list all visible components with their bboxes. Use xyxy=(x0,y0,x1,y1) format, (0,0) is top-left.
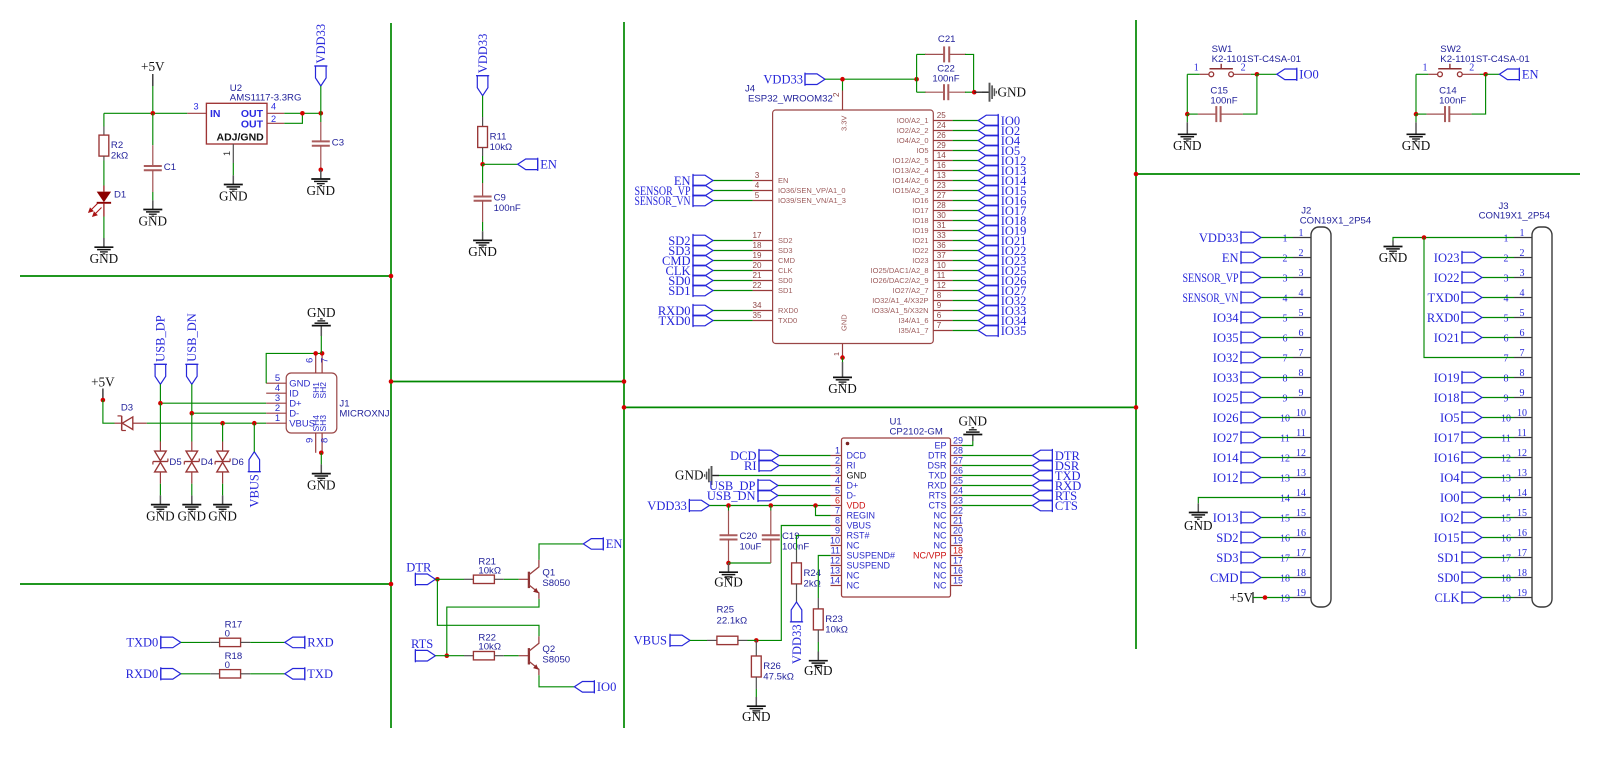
junction REGIN branch xyxy=(813,503,818,508)
wire J4 pin 36 to IO22 xyxy=(953,250,979,252)
svg-text:NC: NC xyxy=(934,561,947,571)
svg-text:REGIN: REGIN xyxy=(847,511,876,521)
wire EP to GND xyxy=(962,441,973,446)
wire SD3 to J4 pin 18 xyxy=(713,250,753,252)
net port DTR xyxy=(406,561,432,575)
svg-text:USB_DP: USB_DP xyxy=(154,315,168,362)
wire SD1 to J3 pin 17 xyxy=(1482,557,1514,559)
net port IO0 at J4 xyxy=(978,114,1020,128)
net port EN at J2 xyxy=(1222,251,1261,265)
pin 4 U1 D+ xyxy=(831,476,859,491)
ground GND under C3 xyxy=(307,170,336,198)
junction J1 sh bottom xyxy=(319,451,324,456)
wire C9 to GND xyxy=(482,222,484,231)
junction J4 vdd xyxy=(840,77,845,82)
net port IO35 at J4 xyxy=(978,324,1026,338)
junction C3 gnd xyxy=(319,168,324,173)
svg-text:10: 10 xyxy=(1517,408,1527,419)
svg-text:16: 16 xyxy=(1280,534,1290,545)
svg-text:3: 3 xyxy=(1504,274,1509,285)
pin 21 U1 NC xyxy=(934,516,964,531)
wire C19 bottom pin xyxy=(770,540,772,564)
pin 6 J1 SH1 xyxy=(305,353,321,398)
pin 10 J4 IO25/DAC1/A2_8 xyxy=(871,261,953,275)
wire J4 pin 23 to IO15 xyxy=(953,190,979,192)
net port RXD xyxy=(285,636,334,650)
pin 13 J2 xyxy=(1280,468,1311,485)
svg-text:100nF: 100nF xyxy=(782,542,809,553)
junction divider xyxy=(389,379,394,384)
svg-text:17: 17 xyxy=(1296,548,1306,559)
svg-text:EN: EN xyxy=(1222,251,1239,265)
net port SD1 at J3 xyxy=(1437,551,1482,565)
junction C19 xyxy=(769,503,774,508)
net port TXD0 at J3 xyxy=(1428,291,1482,305)
svg-text:SD0: SD0 xyxy=(1437,571,1459,585)
pin 16 J3 xyxy=(1501,528,1532,545)
net port IO2 at J3 xyxy=(1440,511,1482,525)
wire to REGIN pin7 xyxy=(816,506,831,516)
wire DTR to Q2 collector xyxy=(437,579,539,636)
svg-text:4: 4 xyxy=(755,181,760,190)
wire R22 right pin xyxy=(494,655,503,657)
svg-text:3: 3 xyxy=(755,171,760,180)
ground GND under R26 xyxy=(742,697,771,724)
svg-text:IO23: IO23 xyxy=(1434,251,1460,265)
svg-text:IO25/DAC1/A2_8: IO25/DAC1/A2_8 xyxy=(871,266,929,275)
wire U1 to TXD xyxy=(962,475,1032,477)
wire R11 to EN node xyxy=(482,156,484,164)
wire R17 to RXD xyxy=(250,641,285,643)
wire pin3 to GND xyxy=(719,475,831,477)
svg-text:12: 12 xyxy=(830,556,840,566)
svg-text:VDD: VDD xyxy=(847,501,867,511)
svg-text:C9: C9 xyxy=(494,193,506,204)
ground GND under C20 xyxy=(714,563,743,590)
svg-text:+5V: +5V xyxy=(1229,590,1253,605)
pin 24 J4 IO2/A2_2 xyxy=(897,121,953,135)
svg-text:5: 5 xyxy=(1520,308,1525,319)
net port SD2 at J4 left xyxy=(668,234,713,248)
svg-text:C1: C1 xyxy=(164,162,176,173)
svg-text:IO27: IO27 xyxy=(1213,431,1239,445)
svg-text:8: 8 xyxy=(937,291,942,300)
svg-text:IO4: IO4 xyxy=(1440,471,1460,485)
svg-text:IO22: IO22 xyxy=(1434,271,1460,285)
pin 1 SW1 xyxy=(1200,73,1209,75)
svg-text:11: 11 xyxy=(1296,428,1306,439)
wire R18 to TXD xyxy=(250,673,285,675)
net port VDD33 at J2 xyxy=(1199,231,1261,245)
wire IO5 to J3 pin 10 xyxy=(1482,417,1514,419)
svg-text:14: 14 xyxy=(1296,488,1306,499)
pin 18 J4 SD3 xyxy=(752,241,792,255)
svg-text:8: 8 xyxy=(835,516,840,526)
svg-text:R2: R2 xyxy=(111,140,123,151)
svg-text:IO36/SEN_VP/A1_0: IO36/SEN_VP/A1_0 xyxy=(778,186,846,195)
net port IO18 at J3 xyxy=(1434,391,1482,405)
svg-text:IO33/A1_5/X32N: IO33/A1_5/X32N xyxy=(872,306,929,315)
wire SD2 to J2 pin 16 xyxy=(1261,537,1293,539)
net port IO34 at J4 xyxy=(978,314,1027,328)
svg-text:IO17: IO17 xyxy=(1434,431,1460,445)
wire USB_DN to D4 xyxy=(191,413,193,441)
svg-text:6: 6 xyxy=(937,311,942,320)
wire pin8 VBUS down xyxy=(756,526,830,641)
svg-text:1: 1 xyxy=(275,413,280,424)
pin 18 J3 xyxy=(1501,568,1532,585)
wire C3 top pin xyxy=(320,122,322,141)
wire R17 right pin xyxy=(241,641,251,643)
net port EN at SW2 xyxy=(1499,68,1538,82)
svg-text:D6: D6 xyxy=(232,457,244,468)
svg-text:5: 5 xyxy=(755,191,760,200)
svg-text:+5V: +5V xyxy=(91,375,115,390)
svg-text:CLK: CLK xyxy=(1435,591,1460,605)
svg-text:CMD: CMD xyxy=(1210,571,1238,585)
svg-text:14: 14 xyxy=(830,576,840,586)
svg-text:13: 13 xyxy=(1517,468,1527,479)
svg-text:EN: EN xyxy=(1522,68,1539,82)
svg-text:RTS: RTS xyxy=(929,491,947,501)
net port CTS at U1 xyxy=(1032,499,1077,513)
net port USB_DN xyxy=(185,313,199,384)
wire R21 to Q1 base xyxy=(504,578,519,580)
svg-text:VDD33: VDD33 xyxy=(476,34,490,74)
junction divider xyxy=(389,582,394,587)
svg-text:VDD33: VDD33 xyxy=(790,624,804,664)
svg-text:2: 2 xyxy=(1520,248,1525,259)
svg-text:SD3: SD3 xyxy=(778,246,793,255)
transistor Q1 xyxy=(529,560,570,599)
svg-text:3: 3 xyxy=(1283,274,1288,285)
pin 18 U1 NC/VPP xyxy=(913,546,963,561)
svg-text:R26: R26 xyxy=(763,661,781,672)
svg-text:7: 7 xyxy=(1283,354,1288,365)
svg-text:7: 7 xyxy=(1299,348,1304,359)
svg-text:9: 9 xyxy=(305,438,316,443)
svg-text:1: 1 xyxy=(1194,62,1199,73)
svg-text:NC: NC xyxy=(934,521,947,531)
net port VDD33 at J4 xyxy=(763,73,825,87)
wire C9 bottom pin xyxy=(482,201,484,222)
svg-text:11: 11 xyxy=(1517,428,1527,439)
wire J2 pin14 to GND xyxy=(1198,498,1293,504)
pin 1 J1 VBUS xyxy=(266,413,315,430)
svg-text:2: 2 xyxy=(1283,254,1288,265)
svg-text:GND: GND xyxy=(208,508,237,523)
svg-text:12: 12 xyxy=(1280,454,1290,465)
junction C20 xyxy=(726,503,731,508)
wire section divider horizontal under ESP32 xyxy=(624,406,1136,408)
svg-text:100nF: 100nF xyxy=(494,203,521,214)
junction sw gnd node xyxy=(1414,112,1419,117)
pin 14 J2 xyxy=(1280,488,1311,505)
pin 3 J3 xyxy=(1504,268,1533,285)
pin 3 J2 xyxy=(1283,268,1312,285)
svg-text:SD2: SD2 xyxy=(1216,531,1238,545)
wire J3 pin1 to GND xyxy=(1393,238,1514,241)
svg-text:TXD0: TXD0 xyxy=(778,316,797,325)
pin 5 J4 IO39/SEN_VN/A1_3 xyxy=(753,191,846,205)
svg-text:35: 35 xyxy=(752,311,762,320)
svg-text:RST#: RST# xyxy=(847,531,870,541)
wire R18 right pin xyxy=(241,673,251,675)
pin 23 J4 IO15/A2_3 xyxy=(893,181,953,195)
wire +5V node to C1 xyxy=(152,113,154,145)
wire IO33 to J2 pin 8 xyxy=(1261,377,1293,379)
wire C20 bottom pin xyxy=(728,540,730,564)
junction +5V node xyxy=(151,111,156,116)
net port SD0 at J4 left xyxy=(668,274,713,288)
wire TXD0 to J4 pin 35 xyxy=(713,320,753,322)
wire J4 pin 37 to IO23 xyxy=(953,260,979,262)
svg-text:18: 18 xyxy=(1517,568,1527,579)
pin 9 U1 RST# xyxy=(831,526,870,541)
svg-text:IO4/A2_0: IO4/A2_0 xyxy=(897,136,929,145)
wire USB_DP to pin4 xyxy=(778,485,831,487)
pin 28 J4 IO17 xyxy=(912,201,952,215)
wire IO32 to J2 pin 7 xyxy=(1261,357,1293,359)
pin 2 J4 3.3V xyxy=(832,91,843,111)
junction divider xyxy=(622,405,627,410)
svg-text:IO26: IO26 xyxy=(1213,411,1239,425)
svg-text:SENSOR_VP: SENSOR_VP xyxy=(1183,271,1239,285)
wire Q1 emitter to RTS xyxy=(447,599,539,655)
wire cap to sw out xyxy=(1243,74,1257,114)
net port DSR at U1 xyxy=(1032,459,1079,473)
svg-text:6: 6 xyxy=(835,496,840,506)
pin 2 U2 OUT xyxy=(267,122,284,124)
net port IO25 at J2 xyxy=(1213,391,1261,405)
pin 4 J4 IO36/SEN_VP/A1_0 xyxy=(753,181,846,195)
svg-text:12: 12 xyxy=(937,281,947,290)
svg-text:4: 4 xyxy=(835,476,840,486)
net port VDD33 under R24 xyxy=(790,602,804,664)
wire section divider vertical middle xyxy=(623,22,625,728)
net port TXD at U1 xyxy=(1032,469,1080,483)
svg-text:14: 14 xyxy=(1517,488,1527,499)
svg-text:SUSPEND: SUSPEND xyxy=(847,561,891,571)
svg-text:3.3V: 3.3V xyxy=(840,116,849,131)
net port IO4 at J3 xyxy=(1440,471,1482,485)
svg-text:7: 7 xyxy=(320,358,331,363)
pin 29 J4 IO5 xyxy=(916,141,952,155)
wire USB_DP to D5 xyxy=(159,403,161,441)
wire U1 to DSR xyxy=(962,465,1032,467)
svg-text:9: 9 xyxy=(1520,388,1525,399)
svg-text:3: 3 xyxy=(1520,268,1525,279)
capacitor C SW2 xyxy=(1445,106,1449,122)
svg-text:IO5: IO5 xyxy=(1440,411,1459,425)
net port IO5 at J4 xyxy=(978,144,1020,158)
svg-text:27: 27 xyxy=(937,191,947,200)
pin 7 J4 I35/A1_7 xyxy=(898,321,952,335)
pin 30 J4 IO18 xyxy=(912,211,952,225)
svg-text:10: 10 xyxy=(1280,414,1290,425)
svg-text:6: 6 xyxy=(1520,328,1525,339)
svg-text:IO17: IO17 xyxy=(912,206,928,215)
pin 15 U1 NC xyxy=(934,576,964,591)
net port IO14 at J2 xyxy=(1213,451,1261,465)
connector J3 CON19X1_2P54 body xyxy=(1479,201,1552,607)
svg-text:28: 28 xyxy=(953,446,963,456)
net port IO0 at J3 xyxy=(1440,491,1482,505)
wire VBUS to R25 xyxy=(690,639,707,641)
pin 12 J2 xyxy=(1280,448,1311,465)
svg-text:IO23: IO23 xyxy=(912,256,928,265)
wire IO2 to J3 pin 15 xyxy=(1482,517,1514,519)
junction sw out xyxy=(1255,72,1260,77)
pin 28 U1 DTR xyxy=(928,446,963,461)
svg-text:SH2: SH2 xyxy=(318,382,328,399)
ground GND at U1 pin3 xyxy=(675,466,719,485)
svg-text:GND: GND xyxy=(307,305,336,320)
svg-text:16: 16 xyxy=(937,161,947,170)
pin 31 J4 IO19 xyxy=(912,221,952,235)
svg-text:RXD0: RXD0 xyxy=(126,667,159,681)
svg-text:MICROXNJ: MICROXNJ xyxy=(339,409,389,420)
ground GND under D1 xyxy=(90,238,119,266)
svg-text:IO12/A2_5: IO12/A2_5 xyxy=(893,156,929,165)
wire J4 pin 16 to IO13 xyxy=(953,170,979,172)
svg-text:26: 26 xyxy=(937,131,947,140)
wire J1 gnd loop xyxy=(266,353,322,383)
svg-text:C20: C20 xyxy=(740,531,758,542)
net port EN at Q1 xyxy=(583,537,622,551)
net port IO23 at J4 xyxy=(978,254,1026,268)
svg-text:NC: NC xyxy=(934,581,947,591)
junction sw gnd node xyxy=(1185,112,1190,117)
svg-text:9: 9 xyxy=(835,526,840,536)
wire R18 left pin xyxy=(210,673,220,675)
svg-text:SD1: SD1 xyxy=(668,284,690,298)
svg-text:3: 3 xyxy=(1299,268,1304,279)
pin 20 U1 NC xyxy=(934,526,964,541)
junction divider xyxy=(622,379,627,384)
svg-text:22: 22 xyxy=(752,281,762,290)
svg-text:GND: GND xyxy=(998,85,1027,100)
svg-text:19: 19 xyxy=(1280,594,1290,605)
svg-text:CMD: CMD xyxy=(778,256,796,265)
pin 7 J2 xyxy=(1283,348,1312,365)
net port VDD33 over R11 xyxy=(476,34,490,96)
pin 20 J4 CLK xyxy=(752,261,792,275)
svg-text:16: 16 xyxy=(1517,528,1527,539)
svg-text:OUT: OUT xyxy=(241,119,264,131)
svg-text:D4: D4 xyxy=(201,457,214,468)
svg-text:IO2: IO2 xyxy=(1440,511,1459,525)
svg-text:10: 10 xyxy=(830,536,840,546)
svg-text:34: 34 xyxy=(752,301,762,310)
svg-text:TXD: TXD xyxy=(929,471,948,481)
net port IO32 at J2 xyxy=(1213,351,1261,365)
net port IO26 at J2 xyxy=(1213,411,1261,425)
svg-text:1: 1 xyxy=(1283,234,1288,245)
pin 14 U1 NC xyxy=(830,576,860,591)
wire Q1 base pin xyxy=(519,578,529,580)
svg-text:VBUS: VBUS xyxy=(634,634,667,648)
svg-text:11: 11 xyxy=(937,271,946,280)
ground GND under R23 xyxy=(804,652,833,679)
net port IO25 at J4 xyxy=(978,264,1026,278)
wire EN to J4 pin 3 xyxy=(713,180,753,182)
wire R17 left pin xyxy=(210,641,220,643)
wire +5V to pin19 xyxy=(1253,597,1293,599)
pin 9 J1 SH4 xyxy=(305,415,321,453)
wire R23 top pin xyxy=(817,598,819,609)
diode D6 xyxy=(215,451,244,472)
net port TXD xyxy=(285,667,333,681)
svg-text:GND: GND xyxy=(714,575,743,590)
pin 8 J2 xyxy=(1283,368,1312,385)
junction OUT pins xyxy=(300,111,305,116)
svg-text:GND: GND xyxy=(90,251,119,266)
pin 13 U1 NC xyxy=(830,566,860,581)
wire VDD33 to J4 pin2 xyxy=(842,79,844,90)
svg-text:100nF: 100nF xyxy=(932,74,959,85)
net port TXD0 bottom-left xyxy=(126,636,180,650)
pin 2 J2 xyxy=(1283,248,1312,265)
wire R24 bottom pin xyxy=(796,584,798,602)
ground GND right of C22 xyxy=(982,83,1026,102)
net port IO17 at J4 xyxy=(978,204,1026,218)
pin 2 J3 xyxy=(1504,248,1533,265)
wire cap loop right xyxy=(965,54,974,92)
svg-text:IO21: IO21 xyxy=(1434,331,1460,345)
pin 24 U1 RTS xyxy=(929,486,963,501)
svg-text:IO34: IO34 xyxy=(1213,311,1239,325)
svg-text:IO19: IO19 xyxy=(912,226,928,235)
connector J1 MICROXNJ body xyxy=(286,373,390,433)
pin 27 U1 DSR xyxy=(927,456,963,471)
svg-text:IO19: IO19 xyxy=(1434,371,1460,385)
pin 15 J3 xyxy=(1501,508,1532,525)
svg-text:12: 12 xyxy=(1501,454,1511,465)
junction USB_DN xyxy=(190,411,195,416)
svg-text:9: 9 xyxy=(1504,394,1509,405)
svg-text:GND: GND xyxy=(178,508,207,523)
wire D5 to GND xyxy=(159,484,161,496)
wire J4 pin 24 to IO2 xyxy=(953,130,979,132)
svg-text:15: 15 xyxy=(1517,508,1527,519)
wire to port xyxy=(1257,73,1277,75)
svg-text:RI: RI xyxy=(744,459,757,473)
net port IO35 at J2 xyxy=(1213,331,1261,345)
wire J4 pin 25 to IO0 xyxy=(953,120,979,122)
svg-text:21: 21 xyxy=(953,516,963,526)
svg-text:NC: NC xyxy=(934,511,947,521)
wire R21 left pin xyxy=(464,578,473,580)
power flag +5V top-left xyxy=(141,59,165,86)
wire C19 top pin xyxy=(770,511,772,536)
wire R2 bottom pin xyxy=(103,156,105,160)
pin 16 J2 xyxy=(1280,528,1311,545)
svg-text:USB_DN: USB_DN xyxy=(707,489,756,503)
net port SD3 at J2 xyxy=(1216,551,1261,565)
capacitor C9 xyxy=(474,193,521,215)
net port VDD33 top-left xyxy=(314,24,328,86)
svg-text:CLK: CLK xyxy=(778,266,793,275)
net port IO21 at J4 xyxy=(978,234,1026,248)
junction VBUS flag branch xyxy=(252,421,257,426)
svg-text:4: 4 xyxy=(1520,288,1525,299)
svg-text:IO32: IO32 xyxy=(1213,351,1239,365)
svg-text:R25: R25 xyxy=(717,605,735,616)
svg-text:19: 19 xyxy=(1517,588,1527,599)
svg-text:RI: RI xyxy=(847,461,856,471)
pin 1 J2 xyxy=(1283,228,1312,245)
